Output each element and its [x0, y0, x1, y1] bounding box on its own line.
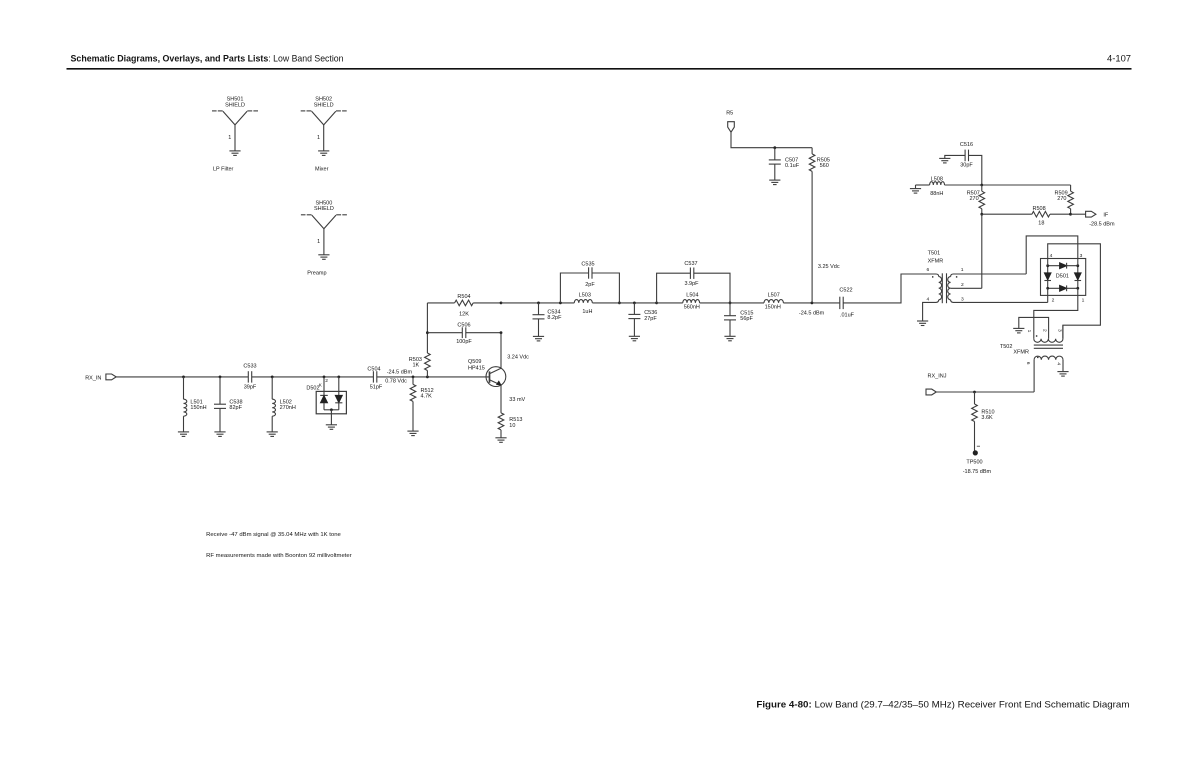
svg-text:270: 270: [1057, 196, 1066, 202]
node D502 pin1: [337, 376, 340, 379]
svg-text:2pF: 2pF: [585, 282, 595, 288]
capacitor C536: [628, 303, 657, 336]
wire to IF pin: [1071, 213, 1086, 215]
T501 pin1 number: [961, 267, 964, 273]
svg-text:3.6K: 3.6K: [981, 415, 993, 421]
wire T501 pin2 riser: [981, 214, 983, 288]
node C506 right: [500, 331, 503, 334]
resistor R510: [972, 392, 995, 451]
ground C538: [214, 432, 225, 437]
svg-text:1uH: 1uH: [582, 309, 592, 315]
svg-text:Receive -47 dBm signal @ 35.0: Receive -47 dBm signal @ 35.04 MHz with …: [206, 532, 341, 538]
annotation 3.24 Vdc: [507, 355, 529, 361]
wire R5 down: [731, 132, 812, 148]
svg-text:D502: D502: [306, 386, 319, 392]
shield SH500: [301, 201, 347, 277]
svg-text:10: 10: [509, 423, 515, 429]
svg-text:1K: 1K: [413, 363, 420, 369]
svg-text:RX_IN: RX_IN: [85, 376, 101, 382]
TP500 label: [966, 460, 982, 466]
capacitor C506: [427, 323, 501, 346]
svg-text:1: 1: [228, 135, 231, 141]
header text: [71, 53, 344, 64]
svg-text:.01uF: .01uF: [840, 312, 855, 318]
svg-text:33 mV: 33 mV: [509, 397, 525, 403]
resistor R513: [498, 385, 522, 438]
diode D501 top: [1060, 263, 1067, 269]
resistor R505: [809, 148, 830, 303]
T501 pin3 number: [961, 297, 964, 303]
svg-text:: Low Band Section: : Low Band Section: [268, 53, 343, 64]
transformer T501 primary: [923, 274, 942, 321]
resistor R507: [967, 185, 985, 214]
input pin RX_IN: [106, 374, 116, 380]
wire filter line 3: [700, 302, 764, 304]
wire filter line 4: [783, 302, 839, 304]
svg-text:3: 3: [961, 297, 964, 303]
wire C504 to Q509 base: [377, 376, 489, 378]
ground C516: [939, 158, 950, 163]
ground L508: [910, 189, 921, 194]
inductor L504: [657, 293, 700, 311]
node R512: [412, 376, 415, 379]
diode D501 left: [1044, 266, 1051, 289]
svg-text:-18.75 dBm: -18.75 dBm: [963, 469, 992, 475]
svg-text:RF measurements made with Boon: RF measurements made with Boonton 92 mil…: [206, 553, 352, 559]
svg-text:6: 6: [1025, 362, 1031, 365]
wire filter line 2: [592, 302, 656, 304]
svg-text:SHIELD: SHIELD: [314, 102, 334, 108]
svg-text:3.24 Vdc: 3.24 Vdc: [507, 355, 529, 361]
svg-text:Q509: Q509: [468, 359, 481, 365]
ground C507: [769, 180, 780, 185]
ground L502: [267, 432, 278, 437]
svg-text:Preamp: Preamp: [307, 270, 326, 276]
svg-text:82pF: 82pF: [229, 405, 242, 411]
svg-text:K: K: [319, 382, 323, 387]
node RX_INJ: [973, 391, 976, 394]
annotation -24.5 dBm: [387, 370, 413, 376]
header rule: [67, 68, 1132, 70]
output pin IF: [1086, 211, 1096, 217]
svg-text:1: 1: [961, 267, 964, 273]
svg-text:HP415: HP415: [468, 365, 485, 371]
svg-text:1: 1: [1082, 298, 1085, 304]
svg-text:C516: C516: [960, 142, 973, 148]
capacitor C515: [724, 303, 753, 336]
T501 pin6 number: [926, 267, 929, 273]
svg-text:30pF: 30pF: [960, 163, 973, 169]
wire C533 to C504: [252, 376, 374, 378]
D501 pin4 number: [1050, 253, 1053, 259]
svg-text:1: 1: [317, 239, 320, 245]
wire T502 pin2 ground: [1019, 317, 1049, 338]
ground C536: [629, 336, 640, 341]
T501 label: [928, 251, 944, 265]
svg-text:8.2pF: 8.2pF: [547, 315, 562, 321]
wire RX_IN to C533: [116, 376, 249, 378]
inductor L507: [764, 293, 783, 311]
svg-text:R508: R508: [1033, 206, 1046, 212]
svg-text:C535: C535: [581, 261, 594, 267]
svg-text:SHIELD: SHIELD: [225, 102, 245, 108]
ground D502: [326, 425, 337, 430]
input pin RX_INJ: [926, 389, 936, 395]
node R507 bottom: [980, 213, 983, 216]
node L508 bus: [980, 184, 983, 187]
annotation 0.78 Vdc: [385, 379, 407, 385]
svg-text:RX_INJ: RX_INJ: [928, 373, 947, 379]
svg-text:270: 270: [970, 196, 979, 202]
node D501 pin3: [1076, 264, 1079, 267]
node C538: [219, 376, 222, 379]
pin R5: [728, 122, 735, 133]
svg-text:XFMR: XFMR: [928, 259, 944, 265]
svg-text:L504: L504: [686, 293, 698, 299]
node C535 right: [618, 302, 621, 305]
diode D502 right element: [335, 377, 342, 410]
note RF measurements: [206, 553, 352, 559]
T501 pin2 number: [961, 282, 964, 288]
svg-text:L503: L503: [579, 293, 591, 299]
D501 pin3 number: [1080, 253, 1083, 259]
annotation -24.5 dBm right: [799, 311, 825, 317]
svg-text:R5: R5: [726, 110, 733, 116]
svg-text:18: 18: [1038, 221, 1044, 227]
capacitor C538: [214, 377, 243, 432]
svg-text:150nH: 150nH: [190, 405, 206, 411]
capacitor C507: [769, 148, 800, 180]
T501 pin4 number: [926, 297, 929, 303]
svg-text:3: 3: [1056, 329, 1062, 332]
node D502 pin2: [323, 376, 326, 379]
svg-text:4: 4: [1050, 253, 1053, 259]
svg-text:LP Filter: LP Filter: [213, 167, 234, 173]
T502 pin4 number: [1056, 362, 1062, 365]
T501 core: [942, 273, 946, 303]
IF label: [1103, 212, 1109, 218]
node C534: [537, 302, 540, 305]
svg-text:T502: T502: [1000, 344, 1013, 350]
svg-text:Schematic Diagrams, Overlays,: Schematic Diagrams, Overlays, and Parts …: [71, 53, 269, 64]
note receive level: [206, 532, 341, 538]
svg-text:560: 560: [820, 163, 829, 169]
ground T501: [917, 321, 928, 326]
svg-text:-24.5 dBm: -24.5 dBm: [387, 370, 413, 376]
node D501 pin1: [1076, 287, 1079, 290]
svg-text:12K: 12K: [459, 312, 469, 318]
TP500 tick: [977, 445, 980, 447]
capacitor C533: [243, 364, 256, 391]
svg-text:27pF: 27pF: [644, 316, 657, 322]
parallel capacitor C537: [657, 261, 730, 303]
resistor R508: [982, 206, 1071, 227]
T502 core: [1034, 345, 1063, 348]
svg-text:Mixer: Mixer: [315, 167, 329, 173]
node collector: [500, 302, 503, 305]
svg-text:L508: L508: [931, 176, 943, 182]
node R503: [426, 376, 429, 379]
svg-text:150nH: 150nH: [765, 305, 781, 311]
annotation 33 mV: [509, 397, 525, 403]
svg-text:3.9pF: 3.9pF: [684, 281, 699, 287]
RX_IN label: [85, 376, 101, 382]
inductor L508: [916, 176, 982, 197]
node C515: [729, 302, 732, 305]
wire C522 to T501: [843, 274, 936, 303]
svg-text:560nH: 560nH: [684, 305, 700, 311]
svg-text:-24.5 dBm: -24.5 dBm: [799, 311, 825, 317]
ground L501: [178, 432, 189, 437]
node C535 left: [559, 302, 562, 305]
svg-text:4-107: 4-107: [1107, 53, 1131, 64]
ground C515: [724, 336, 735, 341]
testpoint TP500: [973, 450, 978, 455]
svg-text:TP500: TP500: [966, 460, 982, 466]
svg-text:3.25 Vdc: 3.25 Vdc: [818, 264, 840, 270]
T502 pin3 number: [1056, 329, 1062, 332]
diode D502 left element: [320, 377, 328, 410]
wire D501 pin1 to T502 pin1: [1034, 288, 1078, 338]
svg-text:-28.5 dBm: -28.5 dBm: [1089, 221, 1115, 227]
node 3.25Vdc junction: [811, 302, 814, 305]
svg-text:L507: L507: [768, 293, 780, 299]
capacitor C522: [839, 288, 854, 319]
svg-text:4.7K: 4.7K: [421, 394, 433, 400]
svg-text:0.1uF: 0.1uF: [785, 163, 800, 169]
D501 quad bottom wire: [1048, 287, 1078, 289]
inductor L501: [184, 377, 207, 432]
resistor R509: [1055, 185, 1074, 214]
T502 pin6 number: [1025, 362, 1031, 365]
diode pack D502 box: [316, 391, 346, 413]
wire filter line 1: [501, 302, 574, 304]
wire C516 ground stub: [945, 155, 965, 158]
shield SH502: [301, 97, 347, 173]
svg-text:XFMR: XFMR: [1013, 349, 1029, 355]
inductor L503: [574, 293, 592, 315]
svg-text:1: 1: [317, 135, 320, 141]
svg-text:51pF: 51pF: [370, 385, 383, 391]
svg-text:C522: C522: [839, 288, 852, 294]
ground T502 pin2: [1013, 328, 1024, 333]
svg-text:100pF: 100pF: [456, 339, 472, 345]
ground R513: [495, 438, 506, 443]
D501 label: [1056, 274, 1069, 280]
wire collector top: [427, 303, 454, 333]
wire D501 pin2 to T501 pin3: [1047, 288, 1049, 302]
D501 pin1 number: [1082, 298, 1085, 304]
T502 phase dot secondary: [1037, 357, 1038, 358]
node R509 bottom: [1069, 213, 1072, 216]
annotation -18.75 dBm: [963, 469, 992, 475]
D502 pin2 number: [325, 378, 328, 384]
capacitor C504: [367, 367, 382, 391]
svg-text:2: 2: [1052, 298, 1055, 304]
annotation 3.25 Vdc: [818, 264, 840, 270]
annotation -28.5 dBm: [1089, 221, 1115, 227]
svg-text:C506: C506: [457, 323, 470, 329]
node L502: [271, 376, 274, 379]
node D501 pin4: [1046, 264, 1049, 267]
svg-text:C504: C504: [367, 367, 380, 373]
ground T502 pin4: [1057, 372, 1068, 377]
T502 label: [1000, 344, 1029, 355]
D502 label: [306, 382, 322, 391]
wire D501 pin3 to T501 pin1: [1026, 236, 1078, 274]
shield SH501: [212, 97, 258, 173]
wire RX_INJ: [936, 391, 1034, 393]
svg-text:3: 3: [1080, 253, 1083, 259]
inductor L502: [272, 377, 296, 432]
ground R512: [407, 431, 418, 436]
R5 label: [726, 110, 733, 116]
svg-text:39pF: 39pF: [244, 385, 257, 391]
transformer T502 secondary: [1034, 356, 1063, 392]
transistor Q509: [468, 333, 506, 387]
svg-text:88nH: 88nH: [930, 191, 943, 197]
svg-text:1: 1: [1026, 330, 1032, 333]
transformer T502 primary: [1034, 325, 1063, 342]
svg-text:270nH: 270nH: [280, 405, 296, 411]
capacitor C516: [960, 142, 973, 169]
T502 pin2 number: [1041, 329, 1047, 332]
svg-text:D501: D501: [1056, 274, 1069, 280]
wire D501 pin4 to T502 pin3: [1048, 244, 1101, 339]
svg-text:4: 4: [1056, 362, 1062, 365]
resistor R504: [455, 294, 501, 318]
ground C534: [533, 336, 544, 341]
node C506 left: [426, 331, 429, 334]
wire C516 to bus: [969, 155, 982, 185]
svg-text:2: 2: [961, 282, 964, 288]
T502 phase dot primary: [1036, 335, 1037, 336]
svg-text:C537: C537: [684, 261, 697, 267]
parallel capacitor C535: [560, 261, 619, 303]
diode D501 bottom: [1060, 285, 1067, 291]
svg-text:IF: IF: [1103, 212, 1109, 218]
svg-text:2: 2: [325, 378, 328, 384]
svg-text:0.78 Vdc: 0.78 Vdc: [385, 379, 407, 385]
node C536: [633, 302, 636, 305]
svg-text:56pF: 56pF: [740, 316, 753, 322]
wire D502 bottom: [324, 408, 339, 424]
node D501 pin2: [1046, 287, 1049, 290]
node C507: [773, 146, 776, 149]
resistor R503: [409, 333, 430, 377]
svg-text:4: 4: [926, 297, 929, 303]
diode pack D501 box: [1041, 259, 1086, 296]
resistor R512: [410, 377, 433, 431]
wire bus to R509: [982, 184, 1071, 186]
page number 4-107: [1107, 53, 1131, 64]
svg-text:C533: C533: [243, 364, 256, 370]
capacitor C534: [533, 303, 563, 336]
diode D501 right: [1075, 266, 1082, 289]
svg-text:SHIELD: SHIELD: [314, 206, 334, 212]
RX_INJ label: [928, 373, 947, 379]
transformer T501 secondary: [948, 274, 1048, 302]
node C537 left: [655, 302, 658, 305]
svg-text:Figure 4-80:: Figure 4-80:: [756, 698, 811, 709]
D501 quad top wire: [1048, 265, 1078, 267]
svg-text:2: 2: [1041, 329, 1047, 332]
svg-text:Low Band (29.7–42/35–50 MHz) R: Low Band (29.7–42/35–50 MHz) Receiver Fr…: [815, 698, 1130, 709]
figure caption: [756, 698, 1129, 709]
svg-text:6: 6: [926, 267, 929, 273]
node L501: [182, 376, 185, 379]
svg-text:T501: T501: [928, 251, 941, 257]
T502 pin1 number: [1026, 330, 1032, 333]
svg-text:R504: R504: [457, 294, 470, 300]
D501 pin2 number: [1052, 298, 1055, 304]
